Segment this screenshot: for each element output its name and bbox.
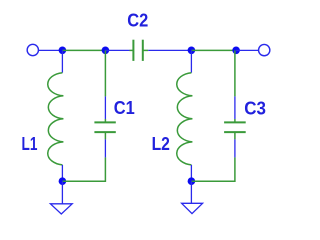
wire node F to C3 bottom (191, 157, 235, 181)
capacitor C2 pin 1 (105, 49, 129, 51)
node B junction (102, 47, 110, 55)
inductor L2 (177, 73, 193, 165)
wire node C to node D (191, 49, 236, 51)
capacitor C2 pin 2 (148, 49, 191, 51)
port P2 (output terminal) (259, 44, 270, 55)
node D junction (232, 47, 240, 55)
wire node E to ground (61, 181, 63, 204)
svg-text:C2: C2 (127, 10, 148, 31)
inductor L1 pin 2 (61, 165, 63, 181)
wire node D to port P2 (236, 49, 258, 51)
wire node A to node B (62, 49, 105, 51)
capacitor C3 (224, 119, 246, 139)
ground GND2 (182, 203, 203, 213)
port P1 (input terminal) (27, 44, 38, 55)
svg-text:C1: C1 (114, 97, 135, 118)
node F junction (188, 177, 196, 185)
wire node D to C3 top (234, 50, 236, 96)
wire port P1 to node A (39, 49, 63, 51)
inductor L1 pin 1 (61, 50, 63, 72)
capacitor C3 pin 1 (234, 96, 236, 119)
capacitor C1 (94, 119, 115, 139)
capacitor C1 pin 1 (104, 96, 106, 119)
node A junction (59, 47, 67, 55)
node C junction (188, 47, 196, 55)
wire node B to C1 top (104, 50, 106, 96)
inductor L2 pin 1 (190, 50, 192, 72)
capacitor C2 (130, 40, 149, 61)
node E junction (59, 177, 67, 185)
ground GND1 (50, 204, 72, 214)
inductor L2 pin 2 (190, 165, 192, 181)
capacitor C3 pin 2 (234, 139, 236, 157)
wire node E to C1 bottom (62, 157, 105, 181)
svg-text:C3: C3 (244, 97, 266, 118)
inductor L1 (48, 73, 64, 165)
capacitor C1 pin 2 (104, 139, 106, 157)
svg-text:L2: L2 (152, 133, 170, 154)
wire node F to ground (190, 181, 192, 203)
svg-text:L1: L1 (22, 133, 38, 154)
